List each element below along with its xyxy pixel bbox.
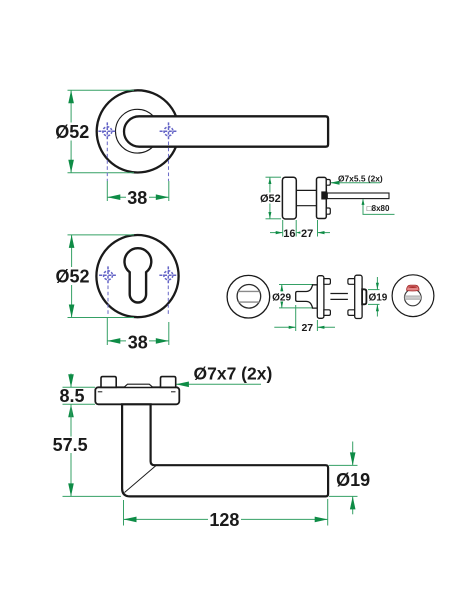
label 27 (wc) [301, 323, 315, 333]
lever L-shape [122, 404, 328, 496]
label Ø19 (wc) [370, 292, 387, 302]
screw hole marker left (row1) [98, 122, 116, 140]
spindle bottom line (wc) [330, 298, 348, 300]
dim 8.5 ext top [63, 386, 96, 388]
red indicator top face [408, 286, 418, 288]
dim 27 (wc) line right tail [317, 326, 335, 328]
screw head left [101, 377, 116, 388]
dim Ø52 (side) extension bottom [266, 218, 282, 220]
dim Ø19 (wc) arrow down [376, 283, 379, 290]
dim 128 ext right [327, 499, 329, 526]
thumbturn front outer circle [227, 275, 270, 318]
dim 8.5 line above [70, 374, 72, 388]
slab tick left [98, 391, 103, 393]
lever grip bar [124, 116, 328, 146]
dim Ø52 (side) extension top [266, 176, 282, 178]
leader square8x80 line [363, 199, 395, 214]
dim Ø52 (row1) line [70, 90, 72, 173]
neck shaft bottom line [296, 205, 316, 207]
screw hole marker left (row2) [99, 266, 117, 284]
dim 16/27 ext right [317, 220, 319, 237]
thumbturn knob bar bottom line [238, 301, 259, 303]
svg-text:Ø19: Ø19 [336, 470, 370, 490]
dim 128 line [124, 518, 328, 520]
svg-text:8.5: 8.5 [59, 386, 84, 406]
euro profile keyhole [125, 248, 152, 302]
dim 16 line tail [270, 232, 283, 234]
dim 38 (row1) extension right [168, 181, 170, 201]
dim Ø52 (row2) extension top [68, 234, 135, 236]
svg-text:27: 27 [301, 228, 313, 240]
screw hole marker right (row1) [160, 122, 178, 140]
miter line [125, 465, 157, 492]
spindle top line (wc) [330, 293, 348, 295]
dim 38 (row2) extension right [168, 322, 170, 345]
screw boss top [326, 180, 330, 186]
dim Ø29 arrow down [280, 301, 283, 308]
label Ø29 [274, 292, 290, 302]
dim Ø52 (side) arrow up [268, 177, 271, 184]
label Ø52 (side) [260, 193, 281, 204]
thumbturn side rose plate [317, 276, 324, 319]
dim 27 (wc) ext right [316, 320, 318, 331]
leader square8x80 arrow [362, 199, 365, 205]
centerline right down (row2) [167, 286, 169, 317]
wc release front outer circle [392, 275, 434, 317]
dim Ø52 (side) arrow down [268, 212, 271, 219]
label 8.5 [59, 389, 85, 404]
dim 128 ext left [123, 500, 125, 526]
rose slab side [95, 387, 179, 404]
dim 38 (row1) arrow left [107, 194, 120, 200]
dim 16 arrow [276, 231, 283, 234]
screw head right [161, 377, 176, 388]
dim 128 arrow left [124, 517, 137, 523]
label 57.5 [52, 437, 88, 454]
svg-text:128: 128 [209, 510, 239, 530]
dim Ø19 arrow down [350, 452, 356, 465]
label Ø52 (row1) [56, 123, 89, 141]
svg-text:Ø29: Ø29 [272, 292, 291, 303]
dim 38 (row2) line [107, 340, 169, 342]
svg-text:Ø52: Ø52 [55, 122, 89, 142]
wc release slot band [405, 296, 421, 299]
dim 27 (wc) arrow right-pointing [289, 326, 296, 329]
dim 27 (wc) ext left [295, 305, 297, 331]
dim Ø19 line above [352, 442, 354, 466]
svg-text:Ø19: Ø19 [368, 292, 387, 303]
dim 27 line tail [318, 232, 331, 234]
rose outer circle [97, 90, 179, 172]
centerline right down (row1) [168, 142, 170, 182]
dim 16/27 ext middle [295, 220, 297, 237]
dim 128 arrow right [315, 517, 328, 523]
wc release inner circle [405, 289, 422, 306]
dim 8.5 arrow up (from below) [68, 404, 74, 417]
dim 27 arrow [318, 231, 325, 234]
screw hole marker right (row2) [159, 266, 177, 284]
neck inner circle [115, 109, 159, 153]
svg-text:Ø52: Ø52 [260, 193, 281, 205]
dim 38 (row2) arrow left [107, 338, 120, 344]
dim 57.5 arrow down at bottom [68, 483, 74, 496]
dim Ø19 (wc) ext bottom [368, 303, 380, 305]
dim Ø29 arrow up [280, 285, 283, 292]
dim Ø19 (wc) line top [376, 277, 378, 290]
svg-text:38: 38 [127, 188, 147, 208]
dim 8.5 arrow down [68, 374, 74, 387]
dim 57.5 ext bottom [63, 495, 122, 497]
dim Ø19 ext bottom [329, 495, 358, 497]
escutcheon outer circle [96, 235, 178, 317]
spindle section (black) [321, 191, 327, 199]
spindle cover bump [124, 384, 153, 387]
red occupancy indicator [407, 285, 419, 291]
neck shaft top line [296, 189, 316, 191]
slab tick right [171, 391, 176, 393]
dim 16 arrow at middle ext [296, 231, 300, 233]
dim Ø19 (wc) ext top [368, 289, 380, 291]
screw boss bottom [326, 208, 330, 214]
svg-text:Ø7x5.5 (2x): Ø7x5.5 (2x) [338, 173, 383, 183]
rose side rect [282, 177, 296, 219]
label Ø19 [337, 473, 369, 488]
label 38 (row2) [126, 333, 149, 351]
dim 38 (row1) line [107, 196, 169, 198]
dim 38 (row1) extension left [106, 181, 108, 201]
dim Ø52 (side) line [269, 177, 271, 219]
dim Ø19 (wc) line bottom [376, 304, 378, 316]
label 38 (row1) [126, 189, 149, 207]
leader Ø7x7 arrow [176, 382, 189, 388]
boss bottom left of release plate [348, 310, 355, 316]
leader Ø7x5.5 line [331, 182, 380, 184]
dim Ø29 ext bottom [279, 307, 314, 309]
svg-text:□8x80: □8x80 [367, 204, 390, 213]
release side plate [355, 275, 362, 318]
svg-text:Ø7x7 (2x): Ø7x7 (2x) [194, 364, 273, 384]
dim Ø52 (row1) arrow down [68, 160, 74, 173]
dim Ø52 (row1) extension bottom [68, 172, 135, 174]
dim 57.5 line [70, 404, 72, 496]
dim Ø29 line [281, 285, 283, 308]
svg-text:Ø52: Ø52 [55, 267, 89, 287]
svg-text:38: 38 [128, 332, 148, 352]
dim Ø52 (row2) extension bottom [68, 317, 135, 319]
dim Ø52 (row2) line [71, 235, 73, 318]
dim Ø52 (row1) extension top [68, 89, 135, 91]
thumbturn knob bar top line [238, 290, 259, 292]
dim Ø29 ext top [279, 284, 313, 286]
dim Ø52 (row2) arrow down [69, 305, 75, 318]
dim Ø52 (row2) arrow up [69, 235, 75, 248]
dim Ø19 ext top [329, 464, 358, 466]
label 128 [208, 512, 241, 528]
release knob side [362, 289, 366, 304]
dim Ø19 (wc) arrow up [376, 304, 379, 311]
thumbturn side knob [296, 285, 318, 308]
boss top left of release plate [348, 279, 355, 285]
dim Ø19 line below [352, 496, 354, 514]
wc release slot top edge [405, 295, 421, 297]
dim 27 (wc) line left tail [274, 326, 295, 328]
dim Ø19 arrow up [350, 496, 356, 509]
dim 8.5 ext bottom [63, 403, 96, 405]
dim 16/27 ext left [282, 220, 284, 237]
dim Ø52 (row1) arrow up [68, 90, 74, 103]
centerline left down (row1) [106, 142, 108, 182]
centerline left down (row2) [107, 286, 109, 317]
dim 38 (row2) extension left [106, 318, 108, 346]
boss top right of plate [324, 279, 331, 285]
dim 38 (row2) arrow right [156, 338, 169, 344]
spindle 8x80 [327, 193, 389, 199]
boss bottom right of plate [324, 310, 331, 316]
svg-text:57.5: 57.5 [53, 435, 88, 455]
leader Ø7x7 line [177, 383, 262, 385]
svg-text:27: 27 [301, 322, 313, 334]
mounting plate [317, 177, 327, 218]
svg-text:16: 16 [283, 228, 295, 240]
dim 27 (wc) arrow left-pointing [317, 326, 324, 329]
wc release slot bottom edge [405, 298, 421, 300]
dim 38 (row1) arrow right [156, 194, 169, 200]
thumbturn front inner circle [237, 285, 261, 309]
leader Ø7x5.5 arrow [330, 181, 339, 185]
label Ø52 (row2) [56, 267, 89, 285]
